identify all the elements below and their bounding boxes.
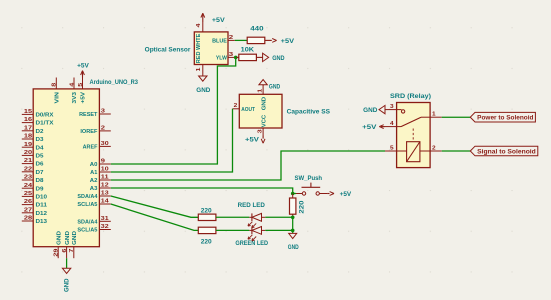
- Arduino pin 4 3V3 (top): [69, 78, 78, 104]
- Arduino pin 3 RESET: [79, 109, 111, 119]
- svg-text:11: 11: [101, 175, 109, 181]
- svg-text:Arduino_UNO_R3: Arduino_UNO_R3: [90, 79, 139, 86]
- optical sensor pin 4 (top): [196, 22, 203, 32]
- wire resistor 220 to green LED node: [292, 217, 294, 230]
- svg-text:GREEN LED: GREEN LED: [235, 240, 268, 247]
- relay pin 5: [385, 145, 397, 151]
- resistor 220 (red LED): [198, 207, 216, 220]
- hierarchical label Power to Solenoid: [470, 112, 535, 122]
- Arduino pin 31 SDA/A4: [77, 216, 110, 226]
- svg-text:5: 5: [390, 145, 394, 151]
- MCU U? Arduino_UNO_R3: [33, 79, 138, 247]
- wire Arduino GND pin 6 down: [66, 258, 68, 268]
- svg-text:GND: GND: [288, 244, 299, 251]
- power +5V right of resistor 440: [265, 38, 295, 45]
- Arduino pin 7 GND (bottom): [69, 231, 78, 258]
- svg-text:AREF: AREF: [83, 145, 98, 151]
- svg-text:D11: D11: [36, 203, 48, 209]
- svg-text:+5V: +5V: [340, 191, 352, 198]
- svg-text:18: 18: [24, 134, 32, 140]
- junction at switch node: [291, 192, 295, 196]
- svg-text:4: 4: [69, 83, 75, 87]
- svg-text:SDA/A4: SDA/A4: [77, 219, 98, 225]
- optical sensor pin 1 (bottom): [196, 65, 203, 76]
- Arduino pin 12 A3: [90, 183, 111, 193]
- Arduino pin 24 D9: [22, 183, 44, 193]
- svg-text:D8: D8: [36, 178, 44, 184]
- svg-text:24: 24: [24, 183, 32, 189]
- svg-text:+5V: +5V: [281, 38, 295, 45]
- power +5V above Arduino: [77, 63, 90, 78]
- svg-text:IOREF: IOREF: [80, 129, 98, 135]
- svg-text:31: 31: [101, 216, 109, 222]
- Arduino pin 17 D2: [22, 125, 44, 135]
- optical sensor pin 2 BLUE: [212, 35, 235, 45]
- resistor 220 (green LED): [198, 227, 216, 245]
- svg-text:AOUT: AOUT: [241, 107, 255, 113]
- svg-text:220: 220: [201, 238, 212, 245]
- capacitive sensor pin 1 GND (top): [258, 87, 268, 111]
- svg-text:A3: A3: [90, 186, 98, 192]
- junction red LED node: [291, 216, 295, 220]
- Arduino pin 13 SDA/A4: [77, 191, 110, 201]
- resistor 10K left lead: [236, 56, 239, 58]
- Arduino pin 19 D4: [22, 142, 45, 152]
- svg-text:RED WHTE: RED WHTE: [196, 33, 202, 63]
- Arduino pin 9 A0: [90, 159, 111, 169]
- svg-text:7: 7: [69, 249, 75, 253]
- svg-text:2: 2: [101, 126, 105, 132]
- svg-text:28: 28: [24, 216, 32, 222]
- Arduino pin 5 +5V (top): [78, 78, 87, 104]
- svg-text:3: 3: [229, 52, 233, 58]
- resistor 10K: [239, 46, 257, 60]
- svg-text:26: 26: [24, 199, 32, 205]
- Arduino pin 26 D11: [22, 199, 47, 209]
- svg-text:GND: GND: [56, 231, 62, 245]
- svg-text:VIN: VIN: [55, 92, 61, 104]
- svg-text:17: 17: [24, 125, 32, 131]
- wire A0 to optical YLW node: [111, 57, 236, 164]
- optical sensor pin 3 YLW: [216, 52, 235, 62]
- svg-text:YLW: YLW: [216, 56, 228, 62]
- Arduino pin 15 D0/RX: [22, 109, 54, 119]
- ground below Arduino: [62, 268, 70, 292]
- wire A1 to capacitive AOUT: [111, 109, 233, 172]
- svg-text:+5V: +5V: [245, 136, 260, 143]
- optical sensor component: [145, 32, 228, 65]
- svg-text:20: 20: [24, 150, 32, 156]
- wire relay pin 2 to Signal label: [442, 150, 471, 152]
- relay internal switch armature: [397, 110, 431, 127]
- resistor 440: [247, 26, 265, 44]
- wire green LED to node: [265, 229, 292, 231]
- wire SCL/A5 to resistor 220 (green LED): [111, 204, 199, 230]
- svg-text:Capacitive SS: Capacitive SS: [287, 109, 330, 116]
- svg-text:SCL/A5: SCL/A5: [77, 202, 97, 208]
- svg-text:3V3: 3V3: [72, 92, 78, 104]
- svg-text:3: 3: [101, 109, 105, 115]
- capacitive sensor pin 3 VCC (bottom): [258, 115, 268, 136]
- power +5V right of switch: [327, 191, 352, 198]
- power +5V below capacitive sensor: [245, 136, 265, 144]
- svg-text:1: 1: [196, 68, 202, 72]
- hierarchical label Signal to Solenoid: [470, 146, 538, 156]
- resistor 220 (pull-down at switch): [290, 194, 306, 218]
- svg-text:5: 5: [78, 83, 84, 87]
- svg-text:GND: GND: [272, 55, 285, 62]
- svg-text:GND: GND: [64, 278, 71, 292]
- svg-text:30: 30: [101, 141, 109, 147]
- svg-text:2: 2: [432, 145, 436, 151]
- svg-text:GND: GND: [269, 84, 281, 91]
- Arduino pin 32 SCL/A5: [77, 224, 110, 234]
- LED green: [235, 227, 268, 248]
- svg-text:SRD (Relay): SRD (Relay): [390, 93, 431, 100]
- Arduino pin 20 D5: [22, 150, 44, 160]
- Arduino pin 27 D12: [22, 207, 47, 217]
- junction at YLW node: [234, 56, 238, 60]
- wire resistor to red LED: [216, 216, 249, 218]
- svg-text:A1: A1: [90, 170, 97, 176]
- capacitive sensor component: [239, 94, 330, 128]
- wire red LED to node: [265, 216, 292, 218]
- Arduino pin 23 D8: [22, 175, 44, 185]
- relay pin 2: [430, 145, 442, 151]
- wire junction to switch: [293, 193, 296, 195]
- Arduino pin 30 AREF: [83, 141, 111, 151]
- svg-text:D1/TX: D1/TX: [36, 121, 54, 127]
- svg-text:GND: GND: [363, 107, 378, 114]
- svg-text:9: 9: [101, 159, 105, 165]
- svg-text:29: 29: [53, 249, 59, 257]
- svg-text:D2: D2: [36, 129, 44, 135]
- svg-text:440: 440: [250, 26, 264, 33]
- svg-text:SDA/A4: SDA/A4: [77, 194, 98, 200]
- svg-text:21: 21: [24, 158, 32, 164]
- svg-text:2: 2: [234, 103, 238, 109]
- switch SW_Push: [295, 175, 328, 195]
- svg-text:22: 22: [24, 166, 32, 172]
- svg-text:8: 8: [52, 83, 58, 87]
- svg-text:3: 3: [390, 104, 394, 110]
- relay pin 1: [430, 112, 442, 118]
- svg-text:VCC: VCC: [261, 115, 267, 128]
- ground left of relay pin 3: [363, 105, 385, 114]
- Arduino pin 11 A2: [90, 175, 111, 185]
- svg-text:SW_Push: SW_Push: [295, 175, 323, 182]
- svg-text:23: 23: [24, 175, 32, 181]
- svg-text:GND: GND: [72, 231, 78, 245]
- svg-text:D0/RX: D0/RX: [36, 113, 54, 119]
- ground above capacitive sensor: [259, 80, 281, 91]
- svg-text:+5V: +5V: [362, 124, 377, 131]
- wire relay pin 1 to Power label: [442, 116, 471, 118]
- svg-text:D13: D13: [36, 219, 48, 225]
- svg-text:+5V: +5V: [212, 17, 226, 24]
- wire BLUE to resistor 440: [235, 39, 247, 41]
- svg-text:27: 27: [24, 207, 32, 213]
- svg-text:D3: D3: [36, 137, 44, 143]
- svg-text:D10: D10: [36, 195, 48, 201]
- Arduino pin 29 GND (bottom): [53, 231, 62, 258]
- svg-text:220: 220: [298, 200, 305, 214]
- svg-text:2: 2: [229, 35, 233, 41]
- Arduino pin 28 D13: [22, 216, 47, 226]
- svg-text:3: 3: [258, 129, 264, 133]
- svg-text:D7: D7: [36, 170, 44, 176]
- svg-text:+5V: +5V: [81, 92, 87, 104]
- svg-text:14: 14: [101, 199, 109, 205]
- Arduino pin 2 IOREF: [80, 126, 110, 136]
- svg-text:RED LED: RED LED: [238, 202, 266, 209]
- svg-text:A0: A0: [90, 162, 98, 168]
- wire SDA/A4 to resistor 220 (red LED): [111, 196, 199, 217]
- svg-text:10: 10: [101, 167, 109, 173]
- svg-text:GND: GND: [261, 97, 267, 111]
- svg-text:GND: GND: [65, 231, 71, 245]
- relay SRD component: [390, 93, 431, 168]
- svg-text:1: 1: [258, 89, 264, 93]
- power +5V above optical sensor: [201, 13, 226, 24]
- Arduino pin 14 SCL/A5: [77, 199, 110, 209]
- Arduino pin 16 D1/TX: [22, 117, 54, 127]
- wire resistor to green LED: [216, 229, 249, 231]
- svg-text:25: 25: [24, 191, 32, 197]
- svg-text:Signal to Solenoid: Signal to Solenoid: [477, 149, 536, 155]
- svg-text:Power to Solenoid: Power to Solenoid: [477, 116, 534, 122]
- relay internal coil: [397, 129, 431, 162]
- relay pin 3: [385, 104, 397, 110]
- LED red: [238, 202, 266, 228]
- Arduino pin 25 D10: [22, 191, 47, 201]
- svg-text:Optical Sensor: Optical Sensor: [145, 47, 191, 54]
- svg-text:D4: D4: [36, 145, 45, 151]
- Arduino pin 21 D6: [22, 158, 44, 168]
- Arduino pin 10 A1: [90, 167, 111, 177]
- svg-text:+5V: +5V: [77, 63, 90, 70]
- svg-text:BLUE: BLUE: [212, 39, 227, 45]
- ground below LED node: [288, 230, 299, 251]
- svg-text:1: 1: [432, 112, 436, 118]
- svg-text:19: 19: [24, 142, 32, 148]
- svg-text:D5: D5: [36, 154, 44, 160]
- svg-text:6: 6: [62, 249, 68, 253]
- relay pin 4: [385, 121, 397, 127]
- svg-text:D9: D9: [36, 186, 44, 192]
- svg-text:32: 32: [101, 224, 109, 230]
- svg-text:220: 220: [201, 207, 212, 214]
- svg-text:16: 16: [24, 117, 32, 123]
- svg-text:RESET: RESET: [79, 112, 98, 118]
- junction green LED node: [291, 229, 295, 233]
- svg-text:GND: GND: [196, 87, 211, 94]
- Arduino pin 6 GND (bottom): [62, 231, 71, 258]
- Arduino pin 8 VIN (top): [52, 78, 61, 104]
- svg-text:4: 4: [390, 121, 394, 127]
- svg-text:D12: D12: [36, 211, 48, 217]
- power +5V left of relay pin 4: [362, 124, 385, 131]
- ground right of resistor 10K: [256, 53, 285, 62]
- Arduino pin 18 D3: [22, 134, 44, 144]
- svg-text:4: 4: [196, 24, 202, 28]
- svg-text:13: 13: [101, 191, 109, 197]
- svg-text:12: 12: [101, 183, 109, 189]
- svg-text:15: 15: [24, 109, 32, 115]
- capacitive sensor pin 2 AOUT: [233, 103, 256, 113]
- wire A2 to relay pin 5: [111, 151, 385, 180]
- ground below optical sensor: [196, 76, 211, 94]
- svg-text:D6: D6: [36, 162, 44, 168]
- svg-text:A2: A2: [90, 178, 98, 184]
- svg-text:10K: 10K: [241, 46, 255, 53]
- wire A3 to switch node: [111, 188, 293, 194]
- svg-text:SCL/A5: SCL/A5: [77, 228, 97, 234]
- Arduino pin 22 D7: [22, 166, 44, 176]
